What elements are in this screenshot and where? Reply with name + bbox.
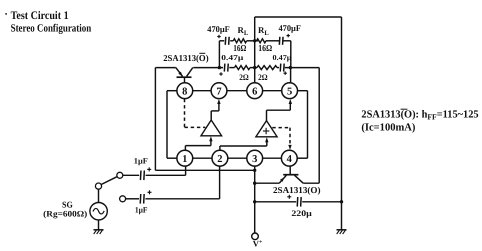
svg-text:6: 6 (252, 86, 257, 97)
svg-text:2SA1313(O): 2SA1313(O) (273, 185, 321, 195)
svg-text:RL: RL (258, 25, 269, 37)
svg-text:220µ: 220µ (291, 209, 312, 218)
svg-text:2Ω: 2Ω (258, 73, 268, 82)
svg-text:470µF: 470µF (279, 23, 302, 33)
svg-text:3: 3 (252, 154, 257, 165)
svg-text:0.47µ: 0.47µ (221, 53, 244, 62)
svg-text:1: 1 (182, 154, 187, 165)
svg-text:2: 2 (217, 154, 222, 165)
svg-text:16Ω: 16Ω (233, 43, 246, 53)
svg-text:0.47µ: 0.47µ (273, 53, 293, 62)
svg-text:2SA1313(O): hFF=115~125: 2SA1313(O): hFF=115~125 (361, 108, 478, 121)
svg-text:1µF: 1µF (135, 206, 148, 215)
svg-text:(Rg=600Ω): (Rg=600Ω) (43, 209, 87, 219)
svg-text:4: 4 (287, 154, 293, 165)
svg-text:7: 7 (216, 86, 221, 97)
svg-text:8: 8 (182, 86, 187, 97)
svg-text:2SA1313(O): 2SA1313(O) (163, 53, 208, 63)
svg-text:Test Circuit 1: Test Circuit 1 (11, 10, 69, 22)
svg-text:16Ω: 16Ω (258, 43, 272, 53)
svg-text:Stereo Configuration: Stereo Configuration (11, 22, 92, 34)
svg-text:1µF: 1µF (134, 157, 148, 166)
svg-text:RL: RL (238, 25, 249, 37)
svg-text:V+: V+ (253, 239, 263, 249)
svg-text:5: 5 (287, 86, 292, 97)
svg-text:(Ic=100mA): (Ic=100mA) (361, 122, 415, 134)
svg-text:470µF: 470µF (207, 24, 230, 34)
svg-text:·: · (4, 9, 8, 21)
svg-text:2Ω: 2Ω (239, 73, 249, 82)
